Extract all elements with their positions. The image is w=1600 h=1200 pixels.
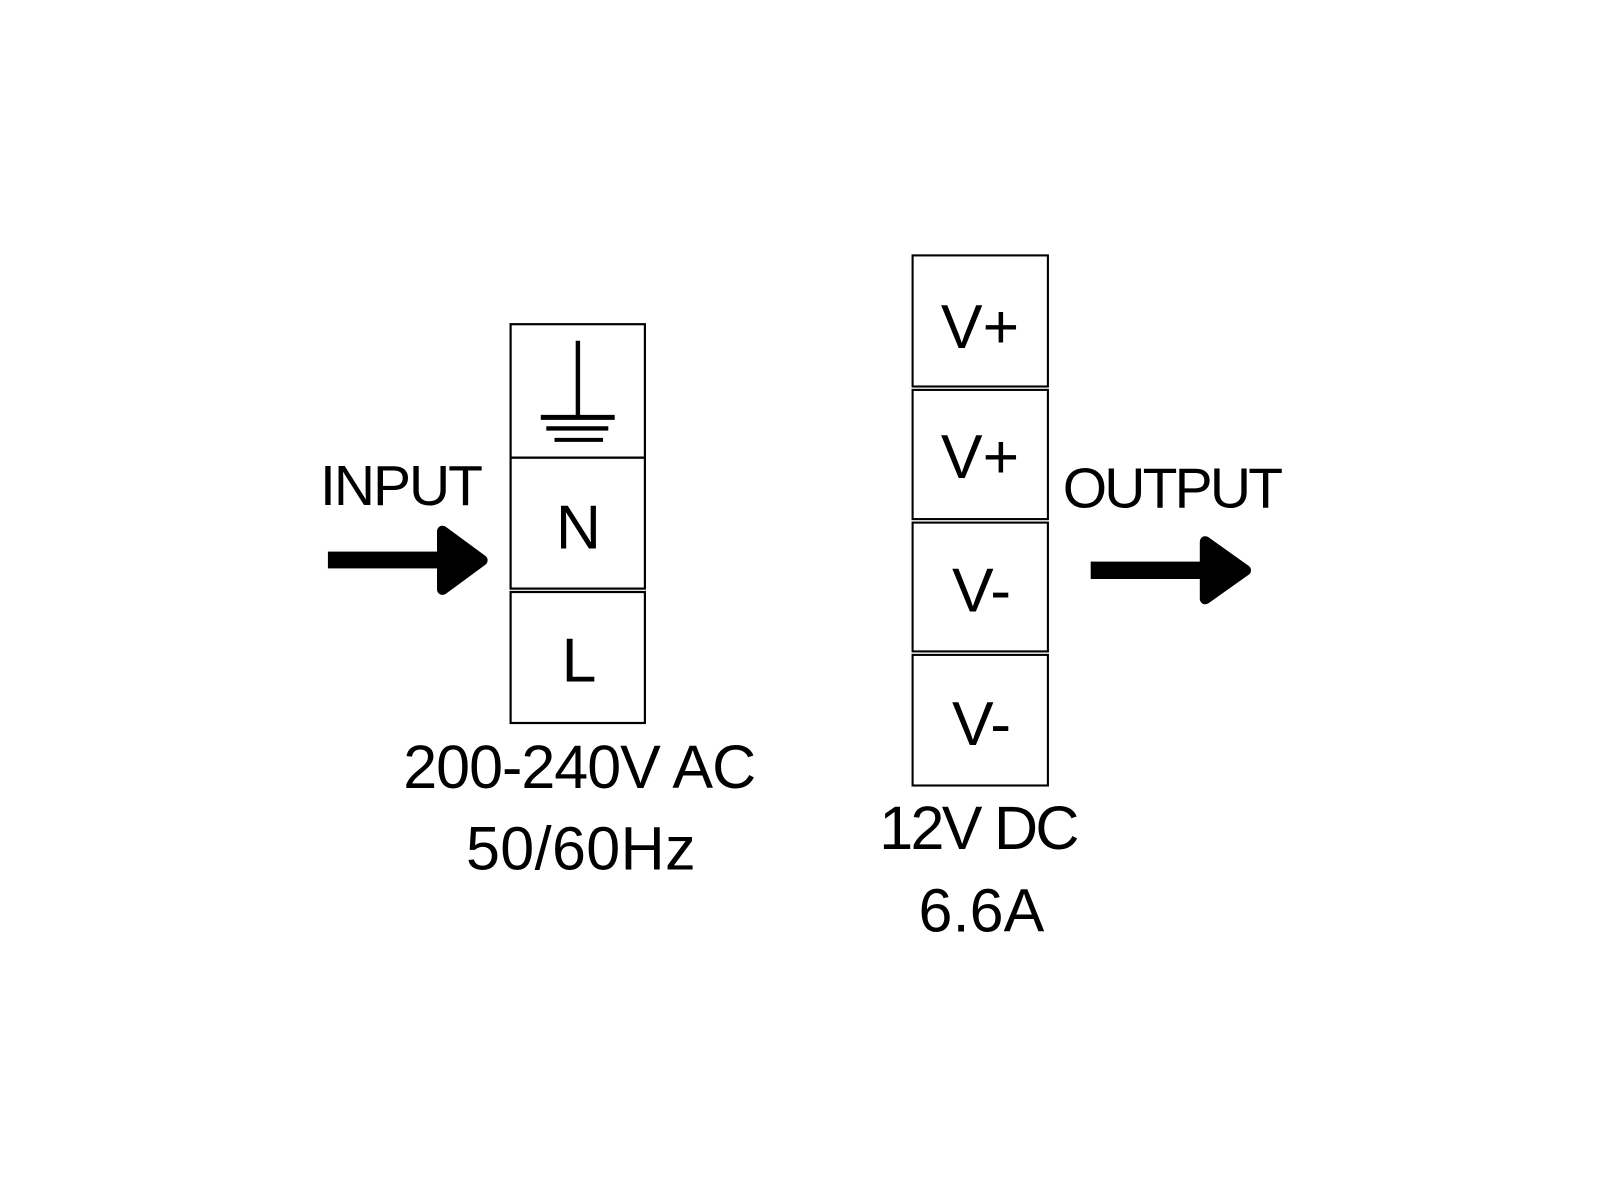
input terminal block cell PE: [511, 324, 645, 457]
ground symbol: [541, 341, 615, 440]
input terminal block cell N: [511, 458, 645, 589]
svg-text:50/60Hz: 50/60Hz: [466, 815, 696, 883]
svg-text:V+: V+: [941, 422, 1019, 492]
output terminal block cell V- (4): [913, 655, 1048, 786]
output terminal block cell V- (3): [913, 523, 1048, 652]
svg-text:200-240V AC: 200-240V AC: [403, 733, 755, 801]
svg-text:V+: V+: [941, 292, 1019, 362]
input arrow: [328, 531, 482, 589]
output terminal block cell V+ (2): [913, 390, 1048, 519]
svg-text:6.6A: 6.6A: [919, 877, 1045, 945]
input terminal block cell L: [511, 592, 645, 723]
output terminal block cell V+ (1): [913, 255, 1048, 386]
svg-text:OUTPUT: OUTPUT: [1063, 457, 1283, 521]
svg-text:N: N: [556, 493, 601, 563]
output arrow: [1091, 542, 1246, 599]
svg-text:V-: V-: [952, 556, 1011, 626]
svg-text:12V DC: 12V DC: [879, 794, 1077, 862]
svg-text:L: L: [562, 626, 597, 696]
svg-text:INPUT: INPUT: [320, 454, 482, 518]
svg-text:V-: V-: [952, 689, 1011, 759]
